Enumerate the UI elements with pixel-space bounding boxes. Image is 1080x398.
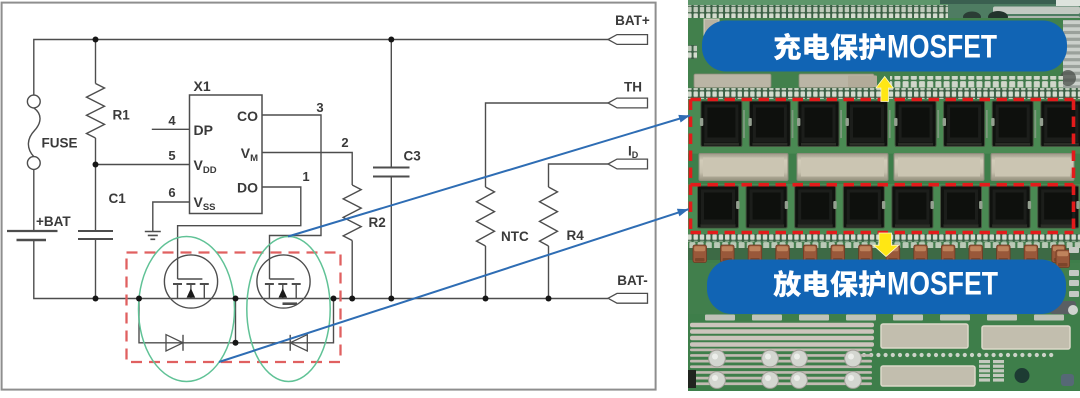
svg-text:MOSFET: MOSFET bbox=[887, 266, 998, 302]
thermistor NTC bbox=[486, 103, 609, 187]
callout arrow 1 bbox=[288, 116, 690, 237]
capacitor C3 bbox=[390, 40, 392, 168]
terminal BAT+ bbox=[608, 35, 648, 45]
svg-text:NTC: NTC bbox=[501, 229, 529, 244]
junction node (235.5,342.8) bbox=[233, 340, 239, 346]
capacitor C1 bbox=[95, 165, 97, 232]
svg-text:R4: R4 bbox=[567, 228, 585, 243]
pin 6 VSS bbox=[153, 202, 190, 232]
svg-text:MOSFET: MOSFET bbox=[887, 29, 997, 65]
junction node (352.2,298.5) bbox=[349, 296, 355, 302]
resistor R2 bbox=[343, 185, 361, 241]
svg-text:+BAT: +BAT bbox=[36, 214, 71, 229]
diode D1 bbox=[166, 335, 183, 351]
junction node (485.5,298.5) bbox=[483, 296, 489, 302]
battery +BAT bbox=[33, 169, 35, 231]
diode D2 bbox=[290, 335, 307, 351]
IC X1 protection controller bbox=[190, 95, 263, 214]
PCB discharge MOSFET row bbox=[698, 186, 740, 228]
svg-text:BAT-: BAT- bbox=[617, 273, 648, 288]
svg-text:R1: R1 bbox=[113, 108, 131, 123]
svg-text:X1: X1 bbox=[194, 78, 211, 94]
PCB solder bumps bbox=[709, 350, 726, 367]
pin 4 DP bbox=[152, 128, 190, 130]
svg-text:R2: R2 bbox=[369, 215, 386, 230]
junction node (139,298.5) bbox=[136, 296, 142, 302]
svg-text:4: 4 bbox=[168, 113, 176, 128]
wire bottom rail BAT- bbox=[34, 240, 608, 299]
svg-text:CO: CO bbox=[237, 108, 258, 124]
banner: charge protection MOSFET bbox=[702, 21, 1067, 72]
svg-text:TH: TH bbox=[624, 80, 642, 95]
junction node (391.3,39.5) bbox=[388, 37, 394, 43]
resistor R4 bbox=[549, 164, 609, 187]
svg-text:FUSE: FUSE bbox=[42, 136, 78, 151]
junction node (95.5,39.5) bbox=[93, 37, 99, 43]
green ellipse 1 bbox=[139, 237, 235, 382]
ground bbox=[145, 232, 161, 240]
red dashed box around FET pair bbox=[127, 253, 341, 363]
junction node (95.5,164.5) bbox=[93, 162, 99, 168]
svg-text:1: 1 bbox=[302, 169, 309, 184]
wire VDD tap bbox=[96, 164, 190, 166]
body diode branch wires bbox=[139, 299, 334, 343]
resistor R1 bbox=[95, 40, 97, 84]
transistor M1 (charge FET) bbox=[164, 255, 217, 308]
fuse FUSE bbox=[27, 95, 40, 108]
junction node (95.5,298.5) bbox=[93, 296, 99, 302]
junction node (235.5,298.5) bbox=[233, 296, 239, 302]
PCB photo panel bbox=[688, 0, 1080, 391]
junction node (548.5,298.5) bbox=[546, 296, 552, 302]
PCB bus traces bbox=[690, 323, 874, 327]
svg-text:ID: ID bbox=[628, 144, 639, 161]
terminal TH bbox=[608, 98, 648, 108]
PCB capacitor row bbox=[688, 248, 1080, 260]
svg-text:C3: C3 bbox=[404, 149, 422, 164]
junction node (391.3,298.5) bbox=[388, 296, 394, 302]
callout arrow 2 bbox=[219, 209, 689, 362]
pin 2 VM wire bbox=[262, 153, 352, 186]
svg-text:3: 3 bbox=[316, 100, 323, 115]
PCB charge MOSFET row bbox=[743, 110, 745, 138]
yellow arrow down bbox=[873, 233, 898, 257]
green ellipse 2 bbox=[247, 237, 330, 382]
svg-text:DO: DO bbox=[237, 180, 258, 196]
pin 1 DO wire to M1 gate bbox=[178, 187, 301, 279]
PCB red dashed box 1 (charge FETs) bbox=[691, 100, 1074, 185]
wire top rail bbox=[34, 40, 608, 96]
yellow arrow up bbox=[876, 77, 894, 102]
svg-text:6: 6 bbox=[168, 185, 175, 200]
transistor M2 (discharge FET) bbox=[257, 255, 310, 308]
PCB solder pads row bbox=[699, 154, 788, 181]
svg-text:5: 5 bbox=[168, 148, 175, 163]
PCB red dashed box 2 (discharge FETs) bbox=[691, 100, 1074, 233]
terminal ID bbox=[608, 159, 648, 169]
svg-text:C1: C1 bbox=[109, 191, 127, 206]
junction node (333.5,298.5) bbox=[331, 296, 337, 302]
schematic frame bbox=[2, 3, 656, 390]
pin 3 CO wire to M2 gate bbox=[262, 115, 321, 279]
svg-text:BAT+: BAT+ bbox=[615, 13, 650, 28]
banner: discharge protection MOSFET bbox=[707, 260, 1066, 315]
svg-text:DP: DP bbox=[194, 122, 213, 138]
terminal BAT- bbox=[608, 293, 648, 303]
svg-text:2: 2 bbox=[341, 135, 348, 150]
